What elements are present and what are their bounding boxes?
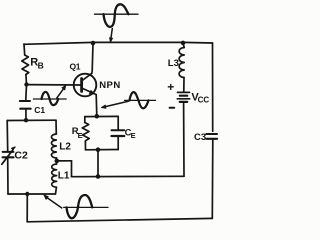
svg-text:C2: C2: [14, 149, 28, 161]
wire tap riser: [71, 161, 73, 177]
wire top rail: [24, 42, 213, 44]
waveform bottom (feedback): [44, 195, 108, 218]
svg-text:C3: C3: [194, 132, 206, 143]
svg-text:+: +: [167, 80, 174, 94]
node coil tap junction: [55, 159, 60, 164]
wire bottom rail: [27, 218, 212, 221]
wire emitter branch lower: [97, 150, 99, 177]
wire collector riser: [92, 43, 93, 73]
capacitor C2 (variable): [2, 147, 28, 164]
wire battery drop: [183, 103, 185, 176]
capacitor C1: [20, 85, 46, 121]
wire emitter drop: [95, 95, 98, 117]
wire right outer branch lower: [211, 140, 214, 218]
node collector junction: [91, 41, 96, 46]
node emitter-top junction: [95, 114, 100, 119]
node L3 junction: [181, 41, 186, 46]
svg-text:Q1: Q1: [70, 62, 81, 72]
wire RE-CE top: [85, 115, 118, 117]
node base junction: [24, 82, 28, 86]
wire RE-CE bottom: [86, 149, 119, 151]
svg-text:L2: L2: [59, 141, 71, 152]
wire left rail RB branch: [23, 44, 26, 55]
wire tank right top stub: [55, 120, 57, 134]
wire tank top: [7, 119, 56, 121]
svg-text:E: E: [131, 131, 136, 140]
capacitor C3: [194, 132, 217, 143]
svg-text:E: E: [78, 131, 83, 140]
waveform emitter: [101, 92, 155, 108]
resistor RB: [22, 55, 44, 85]
wire tank left lower: [7, 159, 9, 195]
node combo-bottom junction: [96, 147, 101, 152]
svg-text:B: B: [38, 61, 44, 71]
capacitor CE: [112, 116, 136, 149]
transistor Q1: [70, 62, 121, 97]
svg-text:L1: L1: [58, 171, 70, 182]
svg-text:NPN: NPN: [99, 80, 121, 91]
wire tap horizontal: [57, 160, 72, 162]
wire base: [27, 84, 82, 86]
svg-text:CC: CC: [198, 96, 210, 105]
node emitter-bottom junction: [96, 174, 101, 179]
wire tank left upper: [6, 121, 9, 152]
inductor L1: [52, 164, 70, 194]
wire L2-L1 link: [56, 158, 58, 164]
wire long bottom horizontal: [72, 175, 185, 177]
wire tank bottom riser: [26, 194, 28, 222]
inductor L3: [168, 43, 184, 78]
wire L3 to battery: [183, 78, 185, 92]
node tank-bottom junction: [25, 192, 29, 196]
inductor L2: [51, 134, 71, 158]
svg-text:L3: L3: [168, 58, 179, 69]
wire tank bottom: [8, 193, 55, 195]
waveform base: [33, 85, 66, 105]
resistor RE: [72, 117, 89, 150]
wire right outer branch upper: [212, 43, 214, 131]
node tank-top junction: [24, 118, 28, 122]
battery VCC: [167, 80, 209, 108]
svg-text:C1: C1: [34, 105, 45, 115]
waveform top (collector output): [95, 4, 139, 42]
